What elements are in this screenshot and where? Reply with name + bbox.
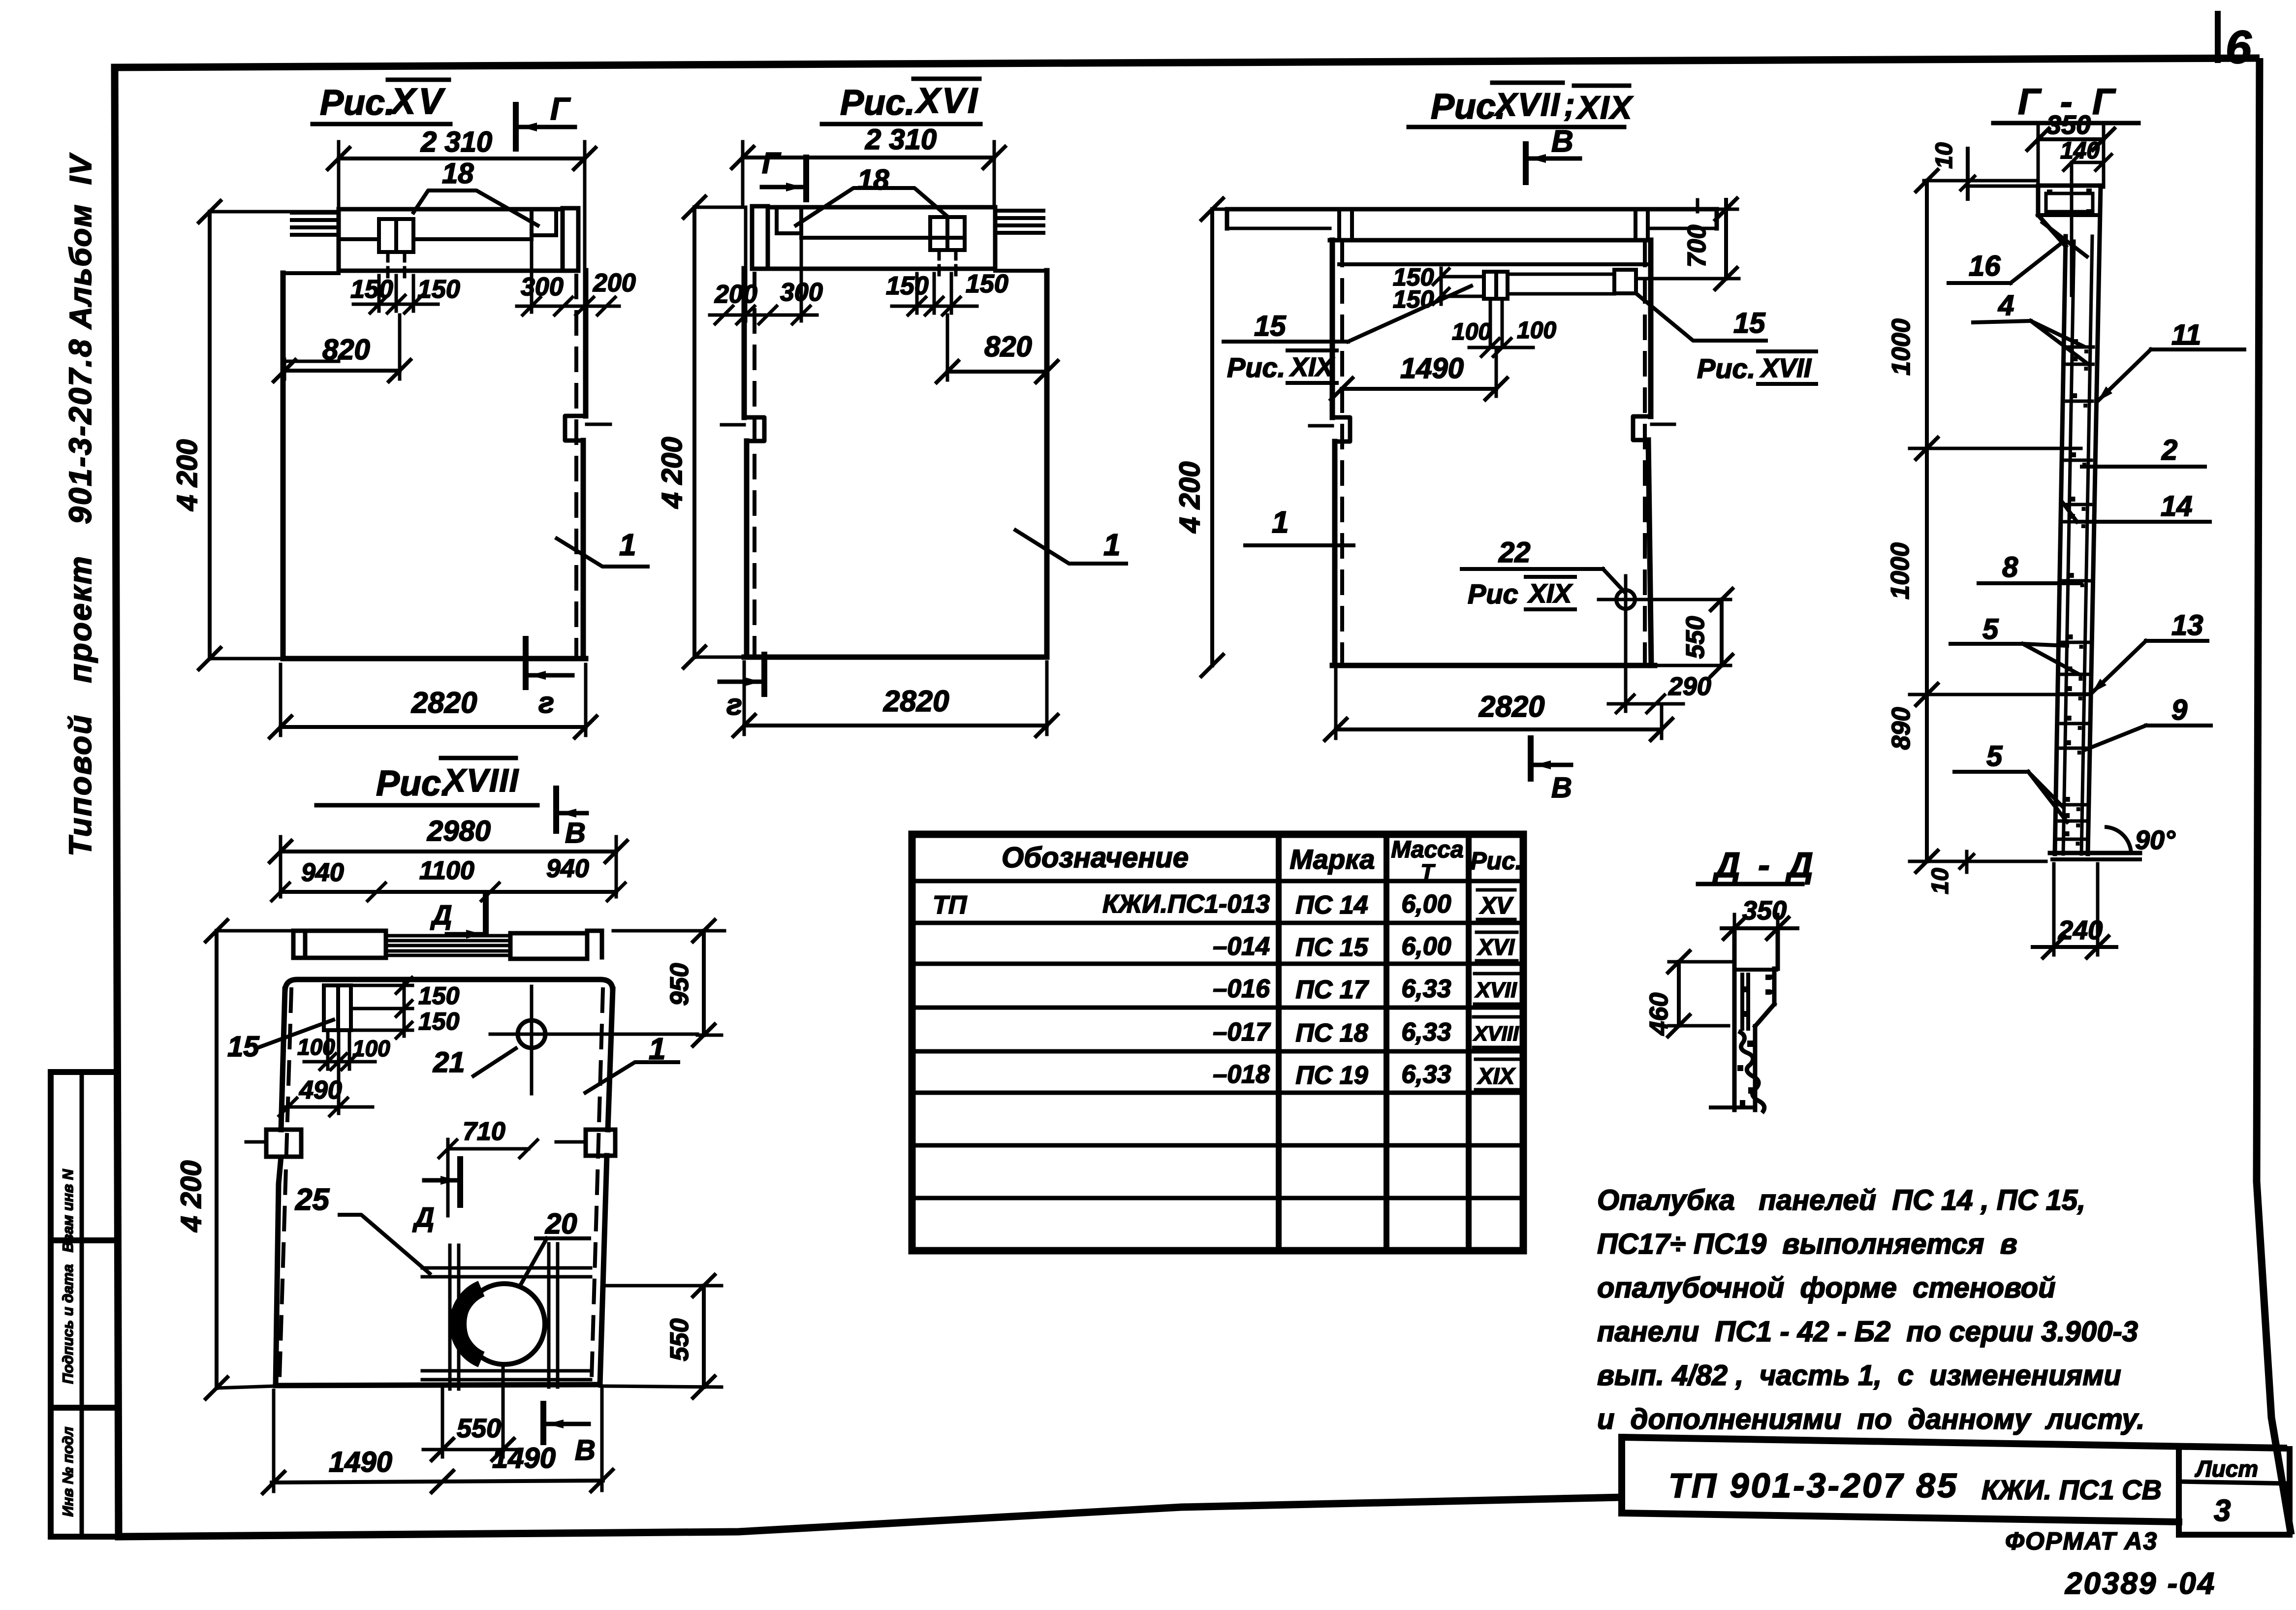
dim 4200 vertical (fig XVI): [692, 207, 696, 657]
svg-text:6,00: 6,00: [1401, 890, 1451, 918]
rebar grid (fig XVIII): [448, 1245, 452, 1389]
svg-text:XVIII: XVIII: [1473, 1022, 1519, 1045]
svg-text:10: 10: [1931, 142, 1957, 169]
svg-text:150: 150: [418, 982, 460, 1010]
svg-text:890: 890: [1887, 707, 1916, 750]
panel body edges (fig XVII): [1330, 240, 1335, 417]
stem lattice marks (Г-Г): [2068, 346, 2093, 349]
panel top band (fig XV): [339, 207, 563, 212]
svg-text:10: 10: [1927, 868, 1953, 894]
svg-text:Лист: Лист: [2195, 1456, 2258, 1482]
svg-text:2980: 2980: [427, 815, 491, 847]
svg-text:Взам инв N: Взам инв N: [60, 1168, 76, 1252]
section mark Г bottom (fig XV): [523, 639, 529, 687]
svg-text:Масса: Масса: [1391, 837, 1463, 863]
svg-text:В: В: [1551, 772, 1572, 804]
svg-text:150: 150: [1393, 285, 1434, 313]
svg-text:Г: Г: [762, 147, 782, 180]
dim 4200 vertical (fig XV): [208, 212, 212, 659]
stem outline (Г-Г): [2055, 236, 2066, 854]
svg-text:Рис.: Рис.: [840, 83, 915, 123]
section mark Г bottom (fig XVI): [761, 655, 767, 694]
svg-text:5: 5: [1982, 613, 1999, 645]
svg-text:4: 4: [1998, 289, 2014, 321]
rebar loops right (fig XVI): [995, 209, 1043, 213]
dimension 2310 (fig XV): [339, 157, 585, 160]
left edge notch (fig XVI): [744, 417, 764, 441]
svg-text:Г: Г: [550, 91, 571, 126]
svg-text:1100: 1100: [419, 856, 474, 885]
Д-Д concrete hatch: [1738, 1031, 1764, 1113]
svg-text:18: 18: [857, 164, 889, 196]
svg-text:опалубочной форме стеновой: опалубочной форме стеновой: [1597, 1272, 2056, 1304]
svg-text:Т: Т: [1421, 860, 1436, 884]
svg-text:4 200: 4 200: [175, 1160, 207, 1232]
opening circle 20 (fig XVIII): [464, 1284, 545, 1364]
svg-text:460: 460: [1645, 993, 1673, 1036]
svg-text:XV: XV: [389, 81, 446, 122]
dim 2820 (fig XV): [281, 725, 586, 729]
svg-text:КЖИ.ПС1-013: КЖИ.ПС1-013: [1102, 890, 1270, 918]
svg-text:Рис.: Рис.: [320, 83, 395, 123]
svg-text:2 310: 2 310: [865, 124, 937, 156]
panel body side edges (fig XVIII): [281, 989, 285, 1130]
svg-text:150: 150: [966, 270, 1008, 298]
dim 950 right (fig XVIII): [702, 931, 706, 1035]
svg-text:22: 22: [1498, 537, 1531, 568]
svg-text:11: 11: [2171, 319, 2201, 351]
svg-text:490: 490: [299, 1076, 342, 1105]
dashed joint line (fig XVI): [753, 274, 756, 654]
svg-text:В: В: [1551, 125, 1573, 158]
svg-text:XVI: XVI: [914, 81, 979, 121]
panel body outline (fig XV): [283, 271, 339, 275]
svg-text:6,33: 6,33: [1401, 1060, 1451, 1089]
svg-text:;: ;: [1564, 86, 1575, 123]
dim 550 right (fig XVII): [1720, 600, 1724, 665]
dim 2820 (fig XVI): [744, 724, 1047, 727]
panel body outline (fig XVI): [995, 269, 1047, 273]
left edge notch (fig XVIII): [266, 1130, 301, 1157]
foot plate (Г-Г): [2050, 851, 2140, 855]
embedded tab right (fig XV): [530, 209, 534, 235]
svg-text:18: 18: [442, 158, 474, 189]
top band cross-section box (Г-Г): [2038, 184, 2101, 188]
svg-text:6,00: 6,00: [1401, 932, 1451, 961]
dim 1490 (fig XVII): [1342, 387, 1496, 391]
svg-text:21: 21: [433, 1046, 465, 1078]
svg-text:панели ПС1 - 42 - Б2 по сери: панели ПС1 - 42 - Б2 по серии 3.900-3: [1597, 1316, 2138, 1348]
svg-text:Обозначение: Обозначение: [1002, 842, 1189, 874]
panel body top edge (fig XVIII): [285, 979, 613, 992]
dims 940 1100 940 (fig XVIII): [281, 890, 616, 894]
svg-text:25: 25: [295, 1183, 330, 1217]
svg-text:15: 15: [1733, 307, 1765, 339]
svg-text:2: 2: [2161, 434, 2177, 466]
svg-text:8: 8: [2002, 551, 2018, 583]
section mark В bottom (fig XVII): [1528, 738, 1534, 779]
dim 4200 vertical (fig XVII): [1210, 209, 1214, 665]
svg-text:ПС 17: ПС 17: [1295, 976, 1369, 1004]
svg-text:940: 940: [301, 858, 344, 887]
section mark В bottom (fig XVIII): [540, 1404, 546, 1442]
svg-text:700: 700: [1683, 225, 1711, 268]
svg-text:100: 100: [1452, 319, 1491, 345]
svg-text:1: 1: [1103, 528, 1120, 562]
panel top band (fig XVII): [1227, 207, 1717, 212]
svg-text:100: 100: [297, 1034, 335, 1060]
svg-text:1490: 1490: [329, 1446, 392, 1478]
svg-text:150: 150: [886, 272, 929, 300]
page number 6 top right: [2215, 14, 2221, 60]
title block Лист cell: [2176, 1447, 2182, 1535]
svg-text:4 200: 4 200: [656, 437, 688, 508]
dims 150 150 under tab (fig XV): [353, 303, 438, 306]
dashed joint line (fig XV): [574, 276, 578, 655]
svg-text:350: 350: [1742, 896, 1787, 925]
svg-text:2820: 2820: [411, 686, 477, 719]
svg-text:15: 15: [227, 1031, 259, 1063]
svg-text:140: 140: [2060, 138, 2100, 164]
right edge notch (fig XV): [565, 416, 586, 441]
svg-text:Марка: Марка: [1290, 844, 1375, 875]
dim 700 right (fig XVII): [1724, 200, 1728, 279]
svg-text:9: 9: [2171, 694, 2187, 726]
Д-Д dim 350 ext: [1733, 915, 1736, 934]
embedded tab left plain (fig XVI): [775, 207, 779, 233]
svg-text:550: 550: [1681, 616, 1710, 659]
svg-text:1: 1: [619, 528, 636, 562]
svg-text:3: 3: [2214, 1494, 2231, 1528]
svg-text:820: 820: [984, 331, 1032, 363]
svg-text:15: 15: [1254, 310, 1286, 342]
svg-text:100: 100: [352, 1036, 390, 1061]
sheet frame border: [115, 58, 2260, 67]
dim 2980 (fig XVIII): [281, 850, 616, 853]
chain dimension 1000/1000/890 (Г-Г): [1925, 181, 1929, 861]
svg-text:Рис.: Рис.: [1470, 847, 1522, 875]
svg-text:ФОРМАТ А3: ФОРМАТ А3: [2005, 1527, 2158, 1555]
svg-text:950: 950: [665, 963, 694, 1006]
svg-text:2820: 2820: [1478, 690, 1544, 723]
svg-text:13: 13: [2171, 609, 2203, 641]
svg-text:550: 550: [665, 1319, 694, 1361]
svg-text:Опалубка панелей ПС 14 , ПС: Опалубка панелей ПС 14 , ПС 15,: [1597, 1184, 2085, 1216]
svg-text:16: 16: [1969, 250, 2001, 282]
svg-text:Подпись и дата: Подпись и дата: [60, 1264, 76, 1384]
svg-text:6,33: 6,33: [1401, 975, 1451, 1003]
svg-text:и дополнениями по данному: и дополнениями по данному листу.: [1597, 1403, 2144, 1435]
svg-text:г: г: [726, 688, 742, 721]
svg-text:XVII: XVII: [1474, 978, 1517, 1002]
dim 4200 vertical (fig XVIII): [215, 931, 219, 1388]
dimension 2310 (fig XVI): [743, 156, 994, 159]
svg-text:940: 940: [546, 854, 589, 883]
svg-text:200: 200: [714, 280, 757, 309]
embedded tab left (fig XV): [379, 219, 413, 252]
svg-text:ПС17÷ ПС19 выполняется в: ПС17÷ ПС19 выполняется в: [1597, 1228, 2017, 1260]
title block box: [1622, 1437, 2284, 1448]
svg-text:–017: –017: [1213, 1018, 1271, 1046]
specification table: [912, 834, 1523, 1251]
svg-text:5: 5: [1986, 740, 2003, 772]
svg-text:ПС 15: ПС 15: [1295, 933, 1368, 962]
svg-text:6: 6: [2226, 21, 2252, 73]
dim 700 top-right tick (fig XVII): [1696, 200, 1699, 212]
svg-text:ТП: ТП: [933, 891, 968, 919]
panel top band (fig XVI): [769, 205, 995, 210]
bottom-left stamp column: [48, 1072, 54, 1537]
svg-text:20389 -04: 20389 -04: [2065, 1567, 2216, 1601]
svg-text:XVII: XVII: [1493, 86, 1561, 123]
svg-text:20: 20: [545, 1208, 577, 1240]
svg-text:1000: 1000: [1887, 318, 1916, 376]
dashed joint lines (fig XVIII): [280, 989, 291, 1378]
svg-text:1: 1: [1272, 505, 1289, 539]
svg-text:ТП 901-3-207 85: ТП 901-3-207 85: [1668, 1466, 1958, 1505]
svg-text:350: 350: [2046, 110, 2091, 140]
section mark В top (fig XVII): [1523, 144, 1529, 182]
sloped transition (Г-Г): [2038, 215, 2066, 246]
top edge blocks (fig XVIII): [291, 931, 296, 958]
embedded channel tabs (fig XVII): [1484, 272, 1508, 299]
section mark Д lower (fig XVIII): [457, 1159, 463, 1205]
svg-text:–014: –014: [1213, 932, 1270, 961]
lifting loop circle marker (fig XVII): [1616, 590, 1635, 609]
svg-text:В: В: [575, 1434, 596, 1466]
svg-text:XVII: XVII: [1760, 353, 1812, 383]
svg-text:4 200: 4 200: [1174, 461, 1206, 533]
svg-text:100: 100: [1517, 317, 1556, 344]
embedded anchor tab (fig XVIII): [324, 985, 351, 1030]
svg-text:XVI: XVI: [1477, 934, 1515, 960]
svg-text:г: г: [538, 686, 554, 719]
svg-text:90°: 90°: [2135, 825, 2175, 855]
svg-text:Рис.: Рис.: [1431, 87, 1506, 126]
svg-text:XIX: XIX: [1477, 1063, 1515, 1089]
svg-text:4 200: 4 200: [171, 439, 203, 511]
svg-text:XIX: XIX: [1289, 352, 1335, 382]
Д-Д cross-section outline: [1732, 928, 1737, 1110]
svg-text:–018: –018: [1213, 1060, 1270, 1089]
right edge notch (fig XVIII): [586, 1130, 615, 1156]
band stub tabs (fig XVII): [1337, 209, 1341, 240]
svg-text:150: 150: [418, 1008, 460, 1035]
svg-text:1000: 1000: [1886, 542, 1915, 600]
section mark Г top (fig XV): [513, 105, 519, 149]
dims 150 150 (fig XVIII): [403, 982, 406, 1036]
svg-text:Инв № подл: Инв № подл: [60, 1426, 76, 1516]
svg-text:вып. 4/82 , часть 1, с изме: вып. 4/82 , часть 1, с изменениями: [1597, 1359, 2121, 1391]
dims 1490 1490 (fig XVIII): [272, 1481, 603, 1483]
section mark В top (fig XVIII): [553, 789, 559, 831]
dim 2820 (fig XVII): [1336, 727, 1662, 731]
Д-Д rebar inside: [1740, 975, 1744, 1029]
svg-text:Альбом IV: Альбом IV: [64, 153, 98, 330]
svg-text:Рис.: Рис.: [1697, 353, 1755, 384]
svg-text:–016: –016: [1213, 975, 1270, 1003]
svg-text:В: В: [565, 817, 586, 849]
dims 100 100 (fig XVII): [1489, 299, 1492, 345]
svg-text:2 310: 2 310: [420, 126, 492, 158]
svg-text:Д - Д: Д - Д: [1712, 846, 1817, 885]
svg-text:550: 550: [457, 1414, 501, 1443]
dims 100 100 (fig XVIII): [326, 1030, 330, 1069]
svg-text:XIX: XIX: [1575, 89, 1634, 126]
svg-text:Д: Д: [412, 1201, 434, 1232]
svg-text:1490: 1490: [1400, 352, 1464, 384]
svg-text:XV: XV: [1479, 893, 1514, 919]
svg-text:240: 240: [2058, 915, 2103, 945]
svg-text:Рис.: Рис.: [1227, 352, 1285, 383]
svg-text:14: 14: [2161, 490, 2193, 522]
svg-text:290: 290: [1668, 672, 1711, 701]
svg-text:XVIII: XVIII: [442, 762, 519, 798]
svg-text:2820: 2820: [883, 685, 949, 718]
svg-text:150: 150: [350, 275, 393, 304]
svg-text:Д: Д: [430, 899, 452, 930]
svg-text:200: 200: [593, 269, 636, 297]
svg-text:150: 150: [417, 275, 460, 304]
svg-text:ПС 14: ПС 14: [1295, 891, 1368, 919]
svg-text:ПС 18: ПС 18: [1295, 1019, 1368, 1047]
svg-text:6,33: 6,33: [1401, 1018, 1451, 1046]
embedded tab right with dashes (fig XVI): [930, 217, 965, 250]
svg-text:ПС 19: ПС 19: [1295, 1061, 1368, 1090]
hole circle 21 (fig XVIII): [518, 1020, 545, 1048]
svg-text:КЖИ. ПС1 СВ: КЖИ. ПС1 СВ: [1981, 1474, 2162, 1505]
dim 550 right lower (fig XVIII): [702, 1286, 706, 1387]
rebar loops left (fig XV): [292, 211, 339, 215]
svg-text:Рис.: Рис.: [376, 764, 451, 803]
svg-text:1490: 1490: [492, 1442, 556, 1474]
svg-text:Типовой проект 901-3-207.8: Типовой проект 901-3-207.8: [63, 338, 98, 856]
svg-text:710: 710: [463, 1117, 505, 1146]
svg-text:XIX: XIX: [1527, 579, 1573, 608]
svg-text:Рис: Рис: [1468, 578, 1518, 609]
